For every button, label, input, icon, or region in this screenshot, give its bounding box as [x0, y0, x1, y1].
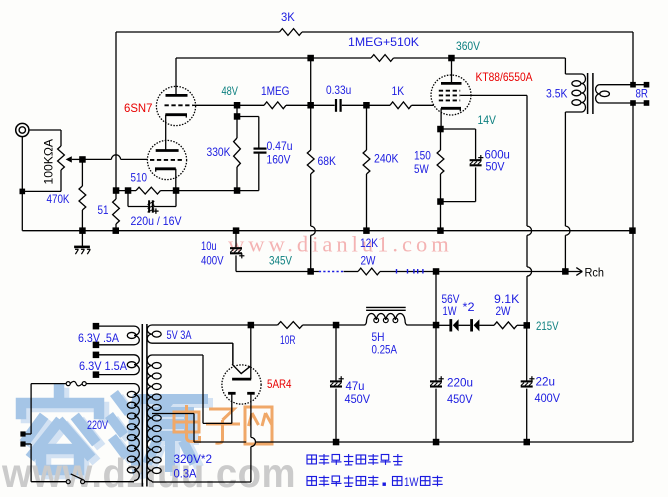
wire 345V rail — [236, 271, 565, 273]
svg-text:*2: *2 — [463, 300, 475, 314]
terminal 6.3V5A bottom — [93, 342, 100, 349]
svg-text:6.3V .5A: 6.3V .5A — [78, 331, 119, 345]
wire 220u top — [435, 325, 437, 381]
terminal 6.3V1.5A top — [93, 352, 100, 359]
wire hop x527 over ground rail — [527, 226, 532, 235]
wire hop x527 over 345V rail — [527, 267, 532, 276]
watermark orange char zi — [206, 409, 240, 443]
terminal plug live — [20, 431, 25, 436]
note line 1 (decoupling single channel) — [307, 454, 403, 465]
label 0.47u — [267, 139, 293, 153]
label 0.25A — [372, 343, 398, 357]
capacitor 220u/16V branch — [128, 191, 176, 207]
junction y58/x310.7 — [307, 55, 314, 62]
junction KT88 cathode 14V node — [437, 126, 444, 133]
svg-text:1W: 1W — [404, 475, 419, 489]
wire hop plate lead over return rail — [251, 437, 256, 446]
label 47u 450V — [345, 392, 371, 406]
wire 330K top — [236, 117, 238, 139]
wire choke to 220u node — [409, 324, 436, 326]
label 5H — [372, 330, 385, 344]
junction 47u return — [333, 439, 340, 446]
resistor 1MEG+510K — [371, 55, 394, 62]
wire 48V node drop — [236, 105, 238, 116]
svg-text:5AR4: 5AR4 — [267, 377, 292, 391]
junction cathode rail x237 — [234, 187, 241, 194]
ground symbol — [74, 231, 90, 255]
wire 470K bottom — [81, 210, 83, 231]
watermark big blue char rong — [21, 389, 99, 470]
wire diodes to 9.1K — [479, 324, 494, 326]
capacitor 600u/50V — [470, 155, 484, 165]
junction 330K top — [234, 113, 241, 120]
label KT88/6550A — [476, 70, 533, 84]
wire KT88 cathode lead — [440, 108, 442, 129]
wire x436 345V to PSU line — [435, 272, 437, 326]
junction 345V/436 — [433, 268, 440, 275]
label 600u — [485, 148, 510, 162]
capacitor 220u/16V symbol — [148, 200, 159, 214]
wire 0.47u branch bottom — [237, 154, 259, 191]
wire 0.33u left — [311, 104, 335, 106]
capacitor 22u/400V — [521, 376, 535, 386]
svg-text:400V: 400V — [535, 391, 561, 405]
wire 6SN7 lower cathode drop — [175, 169, 177, 191]
watermark big blue char rong shadow — [26, 393, 104, 474]
wire OPT secondary top — [600, 84, 647, 86]
label 320V*2 — [174, 452, 213, 466]
junction KT88 plate node 360V — [448, 55, 455, 62]
svg-text:5W: 5W — [414, 162, 429, 176]
pot bottom wire — [22, 170, 61, 191]
switch — [66, 474, 84, 484]
label 9.1K — [494, 292, 520, 306]
label 9.1K 2W — [496, 304, 512, 318]
6SN7 lower plate bar — [156, 149, 179, 152]
6SN7 upper grid dashes — [165, 104, 193, 106]
svg-text:220u: 220u — [447, 376, 473, 390]
svg-text:5V 3A: 5V 3A — [167, 328, 192, 342]
junction wiper node — [79, 156, 86, 163]
label 22u 400V — [535, 391, 561, 405]
wire screen dropper x527 — [526, 95, 528, 322]
OPT primary winding 3.5K — [572, 74, 586, 112]
KT88 plate riser — [451, 58, 453, 83]
label 1K — [392, 84, 405, 98]
wire 9.1K to 215V node — [517, 324, 527, 326]
wire OPT primary bottom lead — [565, 112, 581, 272]
resistor 1K — [390, 102, 412, 109]
label 22u — [536, 375, 556, 389]
wire 1MEG left — [237, 104, 264, 106]
resistor 150 5W wires — [440, 129, 442, 231]
wire 68K top — [310, 105, 312, 150]
junction 220u left — [125, 187, 132, 194]
wire 220u bottom — [435, 389, 437, 442]
wire cathode rail segs — [116, 190, 237, 192]
PT 5V 3A winding — [147, 325, 161, 343]
label 360V — [456, 39, 480, 53]
wire 240K bottom — [366, 174, 368, 231]
KT88 cathode bar — [441, 108, 461, 111]
junction 215V node — [524, 322, 531, 329]
capacitor 220u/450V — [430, 376, 444, 386]
resistor 68K — [307, 150, 314, 174]
svg-text:1K: 1K — [392, 84, 405, 98]
5AR4 cathode bar — [232, 378, 251, 381]
Rch arrow — [565, 268, 582, 276]
label 0.33u — [326, 83, 351, 97]
KT88 plate bar — [441, 82, 462, 85]
svg-text:150: 150 — [414, 149, 431, 163]
wire 330K bottom — [236, 167, 238, 191]
label 12K 2W — [361, 254, 377, 268]
wire between diodes — [459, 324, 471, 326]
wire 6SN7 upper cathode to lower plate — [165, 115, 167, 151]
junction ground right end — [629, 227, 636, 234]
resistor 9.1K — [494, 322, 517, 329]
wire hop x311 over ground rail — [311, 226, 316, 235]
svg-text:47u: 47u — [346, 379, 365, 393]
wire PSU line 5V to 10R — [152, 324, 278, 326]
resistor 1MEG — [264, 102, 286, 109]
watermark pink url www.dianlu1.com — [228, 232, 453, 257]
KT88 grid dashes g1 — [439, 99, 460, 101]
junction ground 51 — [113, 227, 120, 234]
wire 47u node to choke — [336, 324, 361, 326]
junction lower cathode node — [173, 187, 180, 194]
wire 68K bottom to 345V rail — [310, 174, 312, 272]
wire feedback from secondary — [632, 32, 634, 85]
label 10R — [280, 333, 296, 347]
wire 22u top — [526, 325, 528, 380]
label 510 — [131, 171, 148, 185]
label 0.3A — [174, 467, 197, 481]
label 240K — [374, 152, 399, 166]
wire 10u top — [235, 231, 237, 248]
svg-text:6SN7: 6SN7 — [124, 101, 153, 115]
PT HV winding 320V*2 — [147, 355, 161, 481]
pot wiper arrow — [66, 156, 80, 162]
junction 48V node — [234, 102, 241, 109]
svg-text:22u: 22u — [536, 375, 556, 389]
5AR4 cathode riser — [250, 325, 252, 379]
PT 220V primary winding — [127, 384, 139, 481]
label 10u 400V — [201, 254, 224, 268]
junction 220u return — [433, 439, 440, 446]
label 10u — [201, 239, 217, 253]
junction 345V/68K — [307, 268, 314, 275]
wire 0.47u branch top — [237, 117, 259, 149]
watermark orange char dian — [174, 405, 200, 442]
label 1MEG+510K — [348, 35, 419, 49]
junction sec bottom left — [630, 100, 636, 106]
6SN7 upper plate bar — [166, 94, 188, 97]
KT88 grid dashes g3 — [439, 90, 460, 92]
watermark gray url www.dziuu.com — [1, 450, 296, 496]
wire 47u top — [335, 325, 337, 381]
svg-text:www.dianlu1.com: www.dianlu1.com — [228, 232, 453, 257]
tube 6SN7 upper triode envelope — [156, 86, 195, 125]
PSU return rail y=442 — [194, 441, 633, 443]
wire jack to pot — [29, 130, 61, 146]
label *2 — [463, 300, 475, 314]
svg-text:3.5K: 3.5K — [546, 87, 568, 101]
5AR4 filament — [232, 364, 250, 373]
capacitor 10u/400V — [230, 248, 244, 258]
ground rail y=230.7 — [22, 230, 632, 232]
wire sleeve to ground rail — [21, 191, 23, 230]
label 220V — [87, 418, 108, 432]
resistor 3K (feedback) — [280, 29, 303, 36]
capacitor 47u/450V — [330, 376, 344, 386]
junction feedback/51 node — [113, 187, 120, 194]
resistor 510 — [136, 187, 161, 194]
svg-text:220u / 16V: 220u / 16V — [131, 214, 182, 228]
label 330K — [207, 145, 231, 159]
6SN7 lower grid dashes — [150, 159, 183, 161]
svg-text:400V: 400V — [201, 254, 224, 268]
wire 10R to 47u node — [303, 324, 336, 326]
label 8R — [636, 87, 649, 101]
resistor 470K — [79, 186, 86, 210]
junction 150/600u bottom — [437, 198, 444, 205]
tube 6SN7 lower triode envelope — [147, 140, 186, 179]
svg-text:220V: 220V — [87, 418, 108, 432]
svg-text:51: 51 — [98, 203, 109, 217]
svg-text:14V: 14V — [478, 113, 497, 127]
junction ground 240K — [363, 227, 370, 234]
label Rch — [585, 266, 605, 280]
label 47u — [346, 379, 365, 393]
wire 47u bottom — [335, 389, 337, 442]
tube 5AR4 envelope — [222, 365, 261, 404]
label 6SN7 — [124, 101, 153, 115]
label 68K — [318, 154, 337, 168]
wire grid line with hop — [82, 158, 147, 160]
label 56V — [442, 292, 460, 306]
tube KT88 envelope — [431, 75, 471, 115]
label 6.3V 1.5A — [79, 359, 127, 373]
label 51 — [98, 203, 109, 217]
zener diode D2 — [470, 319, 479, 331]
resistor 470K top wire — [81, 159, 83, 186]
wire 1K left — [367, 104, 391, 106]
label 160V — [267, 153, 291, 167]
wire 220u node to diodes — [436, 324, 450, 326]
wire HV bottom — [152, 481, 251, 482]
svg-text:6.3V 1.5A: 6.3V 1.5A — [79, 359, 127, 373]
svg-text:240K: 240K — [374, 152, 399, 166]
svg-text:510: 510 — [131, 171, 148, 185]
watermark big blue char yuan shadow — [117, 401, 208, 474]
choke 5H — [361, 307, 409, 325]
terminal plug neutral — [20, 441, 25, 446]
svg-text:3K: 3K — [281, 10, 295, 24]
watermark orange char wang — [245, 407, 272, 444]
svg-text:0.3A: 0.3A — [174, 467, 197, 481]
svg-text:KT88/6550A: KT88/6550A — [476, 70, 533, 84]
junction ground 10u — [233, 227, 240, 234]
svg-text:330K: 330K — [207, 145, 231, 159]
wire HV top to left plate — [152, 355, 232, 423]
label 215V — [536, 319, 559, 333]
wire HV center tap — [152, 414, 194, 443]
wire OPT secondary bottom — [600, 102, 647, 104]
wire plug to switch — [26, 444, 32, 482]
capacitor 0.47u — [254, 149, 267, 153]
svg-text:50V: 50V — [486, 160, 505, 174]
wire OPT primary top lead — [565, 58, 581, 74]
wire cathode node right — [441, 129, 476, 159]
6SN7 upper plate riser — [175, 58, 177, 95]
svg-text:48V: 48V — [222, 84, 239, 98]
wire primary top with fuse — [31, 383, 134, 385]
junction 47u node — [333, 322, 340, 329]
svg-text:160V: 160V — [267, 153, 291, 167]
wire 0.33u right — [342, 104, 367, 106]
junction 22u return — [524, 439, 531, 446]
label 5V 3A — [167, 328, 192, 342]
svg-text:215V: 215V — [536, 319, 559, 333]
wire plug to fuse — [26, 384, 32, 434]
junction 240K top — [363, 102, 370, 109]
svg-text:1MEG+510K: 1MEG+510K — [348, 35, 419, 49]
svg-text:450V: 450V — [447, 392, 473, 406]
wire KT88 g2 to screen line — [460, 94, 527, 96]
OPT secondary winding — [596, 85, 610, 103]
label 220u — [447, 376, 473, 390]
5AR4 right plate — [247, 393, 255, 482]
svg-text:68K: 68K — [318, 154, 337, 168]
label 5AR4 — [267, 377, 292, 391]
terminal sec bottom right — [644, 100, 650, 106]
input jack — [16, 123, 29, 136]
terminal 6.3V1.5A bottom — [93, 371, 100, 378]
label 1MEG — [261, 84, 290, 98]
svg-text:470K: 470K — [47, 192, 70, 206]
potentiometer 100K zigzag — [58, 146, 65, 170]
capacitor 0.33u — [336, 99, 341, 112]
terminal 6.3V5A top — [93, 323, 100, 330]
svg-text:2W: 2W — [361, 254, 377, 268]
label 48V — [222, 84, 239, 98]
label 220u 450V — [447, 392, 473, 406]
label 3K — [281, 10, 295, 24]
PT 6.3V 5A winding — [99, 326, 139, 345]
junction 345V Rch takeoff — [562, 268, 569, 275]
svg-text:10u: 10u — [201, 239, 217, 253]
5AR4 left plate — [228, 393, 236, 423]
resistor 51 wires — [115, 191, 117, 231]
label 3.5K — [546, 87, 568, 101]
wire 1MEG right — [286, 104, 311, 106]
svg-text:Rch: Rch — [585, 266, 605, 280]
label 150 — [414, 149, 431, 163]
6SN7 lower cathode bar — [155, 169, 176, 172]
svg-text:345V: 345V — [269, 254, 292, 268]
junction sec top left — [630, 82, 636, 88]
svg-text:450V: 450V — [345, 392, 371, 406]
resistor 12K — [358, 268, 380, 275]
svg-text:0.47u: 0.47u — [267, 139, 293, 153]
junction 220u node — [433, 322, 440, 329]
junction ground 470K — [79, 227, 86, 234]
wire 600u bottom — [441, 167, 476, 201]
resistor 51 — [113, 199, 120, 224]
wire 240K top — [366, 105, 368, 150]
wire primary bottom with switch — [31, 481, 134, 483]
svg-text:12K: 12K — [360, 236, 378, 250]
svg-text:2W: 2W — [496, 304, 512, 318]
watermark blue dashes on rail — [319, 269, 423, 274]
label 12K — [360, 236, 378, 250]
wire 10u bottom — [235, 255, 237, 271]
zener diode D1 — [449, 319, 458, 331]
wire 5V bottom — [152, 343, 233, 364]
5AR4 filament left lead — [232, 343, 234, 364]
resistor 330K — [234, 138, 241, 167]
label 345V — [269, 254, 292, 268]
KT88 grid dashes g2 — [439, 94, 460, 96]
fuse — [66, 381, 86, 386]
label 56V 1W — [443, 304, 458, 318]
wire x310.7 vertical — [310, 58, 312, 105]
jack sleeve wire — [21, 137, 23, 192]
wire hop x565 over ground rail — [565, 226, 570, 235]
PT core — [142, 324, 147, 487]
wire 22u bottom — [526, 389, 528, 442]
svg-text:0.25A: 0.25A — [372, 343, 398, 357]
svg-text:1W: 1W — [443, 304, 458, 318]
svg-text:360V: 360V — [456, 39, 480, 53]
6SN7 upper cathode bar — [165, 115, 187, 118]
terminal sec top right — [644, 82, 650, 88]
PT 6.3V 1.5A winding — [99, 355, 139, 375]
label 50V — [486, 160, 505, 174]
wire feedback top rail y=32 — [116, 31, 633, 33]
junction rectifier output — [248, 322, 255, 329]
label 470K — [47, 192, 70, 206]
watermark big blue char yuan — [112, 397, 203, 470]
wire secondary bottom to ground — [632, 103, 634, 442]
svg-text:1MEG: 1MEG — [261, 84, 290, 98]
wire B+ rail y=58 right segment — [394, 57, 566, 59]
svg-text:0.33u: 0.33u — [326, 83, 351, 97]
OPT core — [588, 73, 593, 114]
junction jack sleeve / pot — [20, 189, 26, 195]
label 100KOhmA rotated — [42, 139, 56, 185]
label 6.3V .5A — [78, 331, 119, 345]
wire 1K right to KT88 grid — [412, 104, 434, 106]
note line 2 (resistors 1W unless noted) — [307, 475, 443, 489]
wire upper grid to 48V node — [193, 104, 238, 106]
resistor 150 5W — [437, 150, 444, 174]
junction ground KT88 cathode — [437, 227, 444, 234]
svg-text:320V*2: 320V*2 — [174, 452, 213, 466]
wire B+ rail y=58 left segment — [176, 57, 371, 59]
resistor 240K — [363, 150, 370, 174]
label 5W — [414, 162, 429, 176]
wire feedback left vertical x=116 — [115, 32, 117, 191]
junction 1MEG/68K/0.33u node — [307, 102, 314, 109]
wire hop grid over feedback — [111, 155, 120, 160]
label 220u / 16V — [131, 214, 182, 228]
resistor 10R — [278, 322, 303, 329]
svg-text:10R: 10R — [280, 333, 296, 347]
label 14V — [478, 113, 497, 127]
svg-text:8R: 8R — [636, 87, 649, 101]
